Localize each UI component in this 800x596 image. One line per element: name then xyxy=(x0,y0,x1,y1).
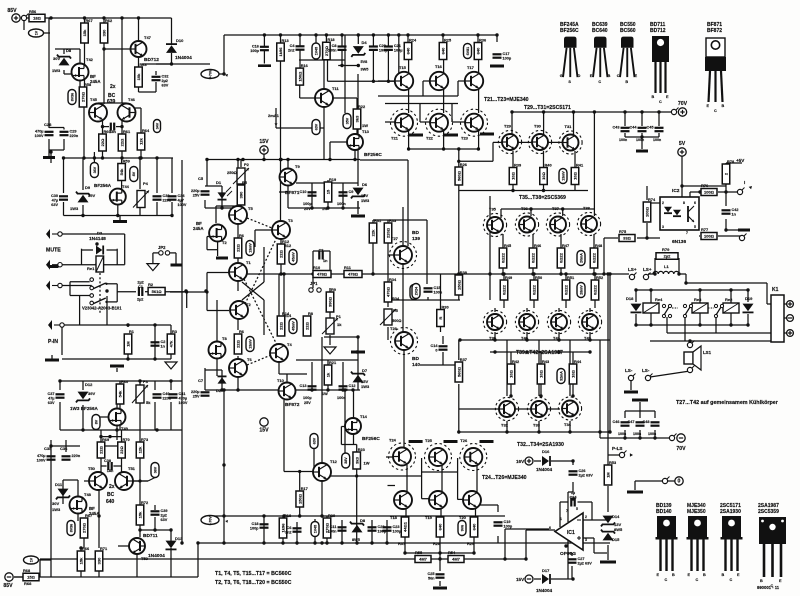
label +5V xyxy=(736,158,745,163)
wire c27 up xyxy=(571,553,573,556)
label T44 xyxy=(122,184,130,189)
wire r73 v xyxy=(139,430,141,442)
wire pls col xyxy=(607,274,609,455)
junction xyxy=(677,272,680,275)
wire T12 e xyxy=(321,481,323,516)
wire R19 col xyxy=(327,180,329,208)
svg-text:T1, T4, T5, T15...T17 = BC560C: T1, T4, T5, T15...T17 = BC560C xyxy=(215,571,292,577)
wire ls+ to L1 xyxy=(648,273,655,275)
wire T42 source xyxy=(79,80,81,89)
svg-text:1µ: 1µ xyxy=(571,491,575,495)
wire d3 top a xyxy=(82,249,94,251)
svg-text:LS-: LS- xyxy=(625,368,633,373)
wire t29 col drop xyxy=(511,112,513,135)
wire t29 base feed v xyxy=(458,149,460,167)
wire R77 lnk xyxy=(699,235,700,237)
label D8 xyxy=(66,48,72,53)
svg-text:R62: R62 xyxy=(105,18,113,23)
switch relay sw1 xyxy=(662,304,678,317)
svg-text:T5: T5 xyxy=(248,206,253,211)
junction xyxy=(222,388,225,391)
wire relay y341 xyxy=(650,340,771,342)
svg-text:C8: C8 xyxy=(332,44,337,48)
inductor L1 xyxy=(653,271,679,274)
label BF872 pkg xyxy=(707,28,722,34)
junction xyxy=(138,379,141,382)
junction xyxy=(120,125,123,128)
label 1W3b xyxy=(70,206,79,211)
capacitor C40 220n xyxy=(153,392,172,400)
wire T2 gate jog xyxy=(207,236,210,238)
resistor R25 xyxy=(439,37,452,59)
junction xyxy=(79,546,82,549)
svg-text:T42: T42 xyxy=(584,336,592,341)
wire K1 a lead xyxy=(784,303,787,305)
svg-text:8V36: 8V36 xyxy=(69,524,73,532)
wire t32 dn xyxy=(506,421,508,432)
svg-text:R1: R1 xyxy=(129,329,135,334)
svg-text:25V: 25V xyxy=(193,394,200,398)
wire top y60 xyxy=(299,59,345,61)
capacitor C21 100u xyxy=(384,44,403,52)
label 25V xyxy=(304,207,311,211)
capacitor C41 470u xyxy=(169,392,188,405)
label D18 xyxy=(626,296,634,301)
label BF245A2 xyxy=(90,79,101,84)
wire R16 dn xyxy=(299,85,301,98)
wire t14 gate l xyxy=(341,426,346,428)
svg-text:R40: R40 xyxy=(545,162,552,167)
transistor T17 xyxy=(465,72,483,90)
label 1W3 BF256A xyxy=(70,406,99,411)
wire T2 gate drop xyxy=(206,237,208,250)
wire gate xyxy=(64,73,72,75)
svg-text:5V8: 5V8 xyxy=(361,60,368,64)
wire r45col xyxy=(532,234,534,248)
terminal tap xyxy=(21,14,28,21)
wire c33 v2 xyxy=(156,202,158,216)
wire C46 dn xyxy=(624,430,626,438)
wire D1 led xyxy=(221,186,223,208)
wire T27 base w xyxy=(388,254,394,256)
svg-text:D10: D10 xyxy=(176,38,184,43)
junction xyxy=(457,160,460,163)
transistor T3 xyxy=(272,221,290,239)
svg-text:R76: R76 xyxy=(701,183,709,188)
svg-text:100n: 100n xyxy=(618,432,626,436)
wire R79 right xyxy=(678,258,680,274)
label D9 xyxy=(85,185,91,190)
oval -70V xyxy=(201,516,219,525)
svg-text:D13: D13 xyxy=(175,536,183,541)
wire sw2 drop xyxy=(684,317,686,341)
label D10 xyxy=(176,38,184,43)
svg-text:C16: C16 xyxy=(252,45,259,49)
svg-text:36V: 36V xyxy=(153,466,157,473)
wire T19 emit dn xyxy=(440,507,442,517)
wire y530 lnk xyxy=(155,529,171,531)
svg-text:100Ω: 100Ω xyxy=(645,206,650,217)
junction xyxy=(571,394,574,397)
svg-text:T12: T12 xyxy=(330,459,338,464)
wire C8 col xyxy=(341,35,343,46)
wire y553 join xyxy=(405,552,474,554)
wire base bus t35 xyxy=(501,208,594,210)
svg-text:R14: R14 xyxy=(284,313,292,318)
capacitor C15 100n xyxy=(424,286,443,294)
label JP1 xyxy=(310,281,318,286)
terminal 15V mid xyxy=(259,139,269,154)
junction xyxy=(623,110,626,113)
svg-text:R: R xyxy=(438,316,443,319)
svg-text:56n: 56n xyxy=(428,576,435,580)
label T2b xyxy=(246,302,251,307)
svg-text:85V: 85V xyxy=(3,583,13,589)
junction xyxy=(438,557,441,560)
label pin2 ic1 xyxy=(585,515,587,519)
ground T2 xyxy=(216,257,228,260)
terminal -85V xyxy=(3,573,13,589)
label T2 xyxy=(222,240,227,245)
capacitor C17 100p xyxy=(493,52,512,60)
label BF245A t2 xyxy=(196,221,202,226)
wire t19 base drop xyxy=(421,476,423,499)
label BF256C xyxy=(364,152,382,158)
label C28 xyxy=(44,122,52,127)
wire R71 col xyxy=(98,489,100,548)
svg-text:BC560: BC560 xyxy=(620,28,636,34)
label 100n c9 xyxy=(337,202,346,206)
wire P2 col xyxy=(240,160,242,167)
label bc560 note xyxy=(215,571,292,577)
transistor T19 xyxy=(429,491,447,509)
transistor T18 xyxy=(394,491,412,509)
terminal 70V tap xyxy=(671,108,678,115)
diode D9 zener xyxy=(76,192,90,203)
wire r73 long xyxy=(139,458,141,506)
svg-text:B: B xyxy=(703,573,706,577)
wire oval36v xyxy=(93,152,95,163)
svg-text:B: B xyxy=(672,573,675,577)
junction xyxy=(532,272,535,275)
svg-text:2µ2: 2µ2 xyxy=(137,298,143,302)
wire R43 up xyxy=(540,352,542,364)
wire C1-R2 xyxy=(145,291,148,293)
svg-text:22Ω: 22Ω xyxy=(236,243,241,251)
junction xyxy=(222,72,225,75)
svg-text:63V: 63V xyxy=(314,123,318,130)
heatsink circle T39 xyxy=(483,310,506,333)
wire D18 col xyxy=(635,290,637,302)
label T19 xyxy=(425,515,433,520)
resistor R29 270Ω xyxy=(323,513,336,538)
wire R21 col xyxy=(327,360,329,390)
junction xyxy=(511,189,514,192)
junction xyxy=(502,272,505,275)
junction xyxy=(236,388,239,391)
package TO-92 BF245 xyxy=(560,37,581,85)
svg-text:IC2: IC2 xyxy=(672,188,680,194)
terminal LS+ b xyxy=(643,273,650,280)
junction t12 emit xyxy=(326,474,329,477)
label T41 xyxy=(553,336,561,341)
svg-text:C35: C35 xyxy=(44,446,52,451)
diode D14 zener xyxy=(601,516,615,527)
svg-text:10Ω: 10Ω xyxy=(511,171,516,179)
svg-text:C32: C32 xyxy=(162,75,169,79)
wire R74 dn xyxy=(646,223,648,238)
svg-text:T44: T44 xyxy=(122,184,130,189)
junction xyxy=(698,288,701,291)
junction xyxy=(58,379,61,382)
resistor R33 220Ω xyxy=(384,218,397,243)
label C5 xyxy=(198,176,204,181)
label IC2 xyxy=(672,188,680,194)
wire LED row xyxy=(205,207,228,209)
relay Re4 xyxy=(643,303,659,313)
resistor R52 0Ω22 xyxy=(591,275,604,300)
wire r45col xyxy=(502,234,504,248)
wire y160 ext xyxy=(360,159,408,161)
wire T22 base jog xyxy=(420,121,430,123)
svg-text:5: 5 xyxy=(576,507,578,511)
heatsink circle T33 xyxy=(527,397,550,420)
resistor R61 22Ω xyxy=(118,129,131,151)
wire C21 dn xyxy=(387,51,389,82)
label 1W3 d7 xyxy=(361,384,370,389)
svg-text:R51: R51 xyxy=(567,275,575,280)
wire x264 dn xyxy=(263,300,265,335)
junction xyxy=(298,514,301,517)
label T46 xyxy=(128,97,136,102)
svg-text:140: 140 xyxy=(412,362,420,368)
label T13 xyxy=(362,129,370,134)
diode D12 zener 39V xyxy=(76,392,90,403)
resistor R79 2u2 xyxy=(656,253,678,260)
wire C16 col xyxy=(263,35,265,46)
label D13 xyxy=(175,536,183,541)
junction xyxy=(542,189,545,192)
wire P5 dn xyxy=(387,327,389,340)
junction xyxy=(501,272,504,275)
junction xyxy=(680,110,683,113)
wire C48 col xyxy=(654,411,656,418)
svg-text:R22: R22 xyxy=(358,104,366,109)
svg-text:12k: 12k xyxy=(139,137,144,144)
svg-text:BC: BC xyxy=(107,492,115,498)
wire r45 dn xyxy=(593,266,595,274)
junction xyxy=(298,33,301,36)
wire r49 dn xyxy=(533,299,535,308)
label docnum xyxy=(757,585,780,590)
label Re1 xyxy=(87,266,95,271)
wire C46 col xyxy=(624,411,626,418)
junction xyxy=(220,388,223,391)
svg-text:R16: R16 xyxy=(301,63,309,68)
relay Re2 xyxy=(723,303,739,313)
svg-text:R63: R63 xyxy=(140,62,148,67)
wire R6-T1 xyxy=(237,255,239,263)
label D8b xyxy=(360,518,366,523)
wire c46 top xyxy=(625,410,655,412)
svg-text:C28: C28 xyxy=(44,122,52,127)
wire c24-pin2 xyxy=(591,502,593,520)
svg-text:T14: T14 xyxy=(360,414,368,419)
heatsink circle T37 xyxy=(546,213,569,236)
resistor R18 1k96 xyxy=(279,513,292,538)
capacitor C2 1n xyxy=(151,340,166,348)
oval 2V24 xyxy=(410,285,418,300)
capacitor C22 190p xyxy=(368,525,387,533)
junction xyxy=(262,541,265,544)
wire pin3 to d15 xyxy=(594,552,607,554)
junction xyxy=(503,557,506,560)
svg-text:T24...T26=MJE340: T24...T26=MJE340 xyxy=(482,475,527,481)
ground t26 xyxy=(480,440,494,443)
svg-text:T29: T29 xyxy=(504,124,512,129)
svg-text:MJE350: MJE350 xyxy=(687,509,706,515)
svg-text:100n: 100n xyxy=(434,290,443,294)
svg-text:B: B xyxy=(625,80,628,84)
wire r49 dn xyxy=(594,299,596,308)
junction xyxy=(477,147,480,150)
svg-text:R8: R8 xyxy=(308,311,314,316)
label BD139 pkg xyxy=(656,503,672,509)
wire R34 col xyxy=(387,255,389,285)
svg-text:T20: T20 xyxy=(459,515,467,520)
wire T23 emit xyxy=(478,131,480,149)
junction xyxy=(606,272,609,275)
wire jp2 r xyxy=(170,252,176,254)
svg-text:Re4: Re4 xyxy=(655,297,663,302)
label BC560 pkg xyxy=(620,28,636,34)
oval 1V low xyxy=(24,556,39,564)
wire d9 v2 xyxy=(82,205,84,216)
svg-text:100µ: 100µ xyxy=(303,202,312,206)
label BF245Ab2 xyxy=(89,511,100,516)
junction xyxy=(325,541,328,544)
wire D10 col xyxy=(171,18,173,44)
resistor R72 15k xyxy=(136,500,149,525)
junction xyxy=(608,430,611,433)
wire y374 xyxy=(279,373,307,375)
junction xyxy=(137,16,140,19)
label 100u 25V xyxy=(303,202,312,206)
svg-text:D18: D18 xyxy=(626,296,634,301)
svg-text:D15: D15 xyxy=(612,537,620,542)
wire C8-D4 tie xyxy=(338,65,358,67)
wire t32 dn xyxy=(538,421,540,432)
junction xyxy=(155,428,158,431)
junction xyxy=(592,272,595,275)
heatsink circle T24 xyxy=(389,443,416,470)
oval 35V xyxy=(343,114,351,129)
wire D19 dn xyxy=(747,314,749,325)
junction xyxy=(623,436,626,439)
svg-text:8V: 8V xyxy=(94,419,98,424)
label BC xyxy=(108,93,116,99)
capacitor C45 100n xyxy=(647,126,664,132)
capacitor C7 220u xyxy=(191,390,210,398)
svg-text:T13: T13 xyxy=(362,129,370,134)
resistor R5 390Ω xyxy=(237,180,248,205)
svg-text:R68: R68 xyxy=(23,568,31,573)
svg-text:BD140: BD140 xyxy=(656,509,672,515)
svg-text:R41: R41 xyxy=(576,162,584,167)
svg-text:100Ω: 100Ω xyxy=(704,190,715,195)
svg-text:22k: 22k xyxy=(371,229,376,236)
svg-text:2x: 2x xyxy=(109,484,115,490)
label pin3 xyxy=(662,225,664,229)
diode D2 LED xyxy=(218,376,227,383)
svg-text:R58: R58 xyxy=(84,82,92,87)
wire lowcaps xyxy=(51,445,80,447)
svg-text:2µ2 63V: 2µ2 63V xyxy=(579,473,594,477)
wire fb up xyxy=(504,529,506,559)
wire R61 dn2 xyxy=(121,151,123,158)
svg-text:D: D xyxy=(578,74,581,78)
wire D8b col xyxy=(356,476,358,543)
wire y64 to right xyxy=(142,63,210,65)
junction xyxy=(403,551,406,554)
wire c27 dn xyxy=(571,566,573,579)
svg-text:2: 2 xyxy=(585,515,587,519)
terminal block K1 xyxy=(771,295,784,342)
svg-text:8W5: 8W5 xyxy=(614,527,623,532)
svg-text:P-LS: P-LS xyxy=(612,446,622,451)
wire T8 up xyxy=(216,300,218,341)
svg-text:R21: R21 xyxy=(329,360,337,365)
svg-text:C9: C9 xyxy=(349,190,354,194)
wire C40 col xyxy=(154,381,156,390)
svg-text:44Ω1: 44Ω1 xyxy=(403,521,408,532)
svg-text:4µ7: 4µ7 xyxy=(178,198,184,202)
wire drive rail A xyxy=(378,95,458,97)
terminal I out xyxy=(737,188,744,195)
svg-text:22Ω: 22Ω xyxy=(119,445,124,453)
svg-text:100n: 100n xyxy=(328,529,337,533)
wire rbank dn xyxy=(473,537,475,553)
resistor R16 150Ω xyxy=(296,63,309,85)
wire R63-C32 xyxy=(139,91,157,93)
wire rbank dn xyxy=(439,537,441,553)
svg-text:100Ω: 100Ω xyxy=(704,234,715,239)
label LS- a xyxy=(625,368,633,373)
transistor T46 xyxy=(118,104,136,122)
svg-text:BC640: BC640 xyxy=(592,28,608,34)
label P5 xyxy=(393,308,399,313)
transistor T11 xyxy=(315,89,333,107)
wire y64 D10 xyxy=(156,63,172,65)
svg-text:R18: R18 xyxy=(327,37,335,42)
svg-text:R26: R26 xyxy=(460,162,468,167)
junction xyxy=(657,110,660,113)
wire x224 low xyxy=(223,390,225,543)
svg-text:R25: R25 xyxy=(444,37,452,42)
wire c26 dn xyxy=(572,482,574,492)
wire x264 up xyxy=(263,247,265,282)
wire x345 low xyxy=(344,390,346,454)
wire R75 lnk xyxy=(637,237,660,239)
svg-text:25V: 25V xyxy=(193,193,200,197)
svg-text:T6: T6 xyxy=(247,357,252,362)
wire relay y325 xyxy=(636,324,748,326)
jfet T49 xyxy=(109,409,126,426)
junction xyxy=(724,228,727,231)
svg-text:1N4004: 1N4004 xyxy=(148,553,165,559)
wire 5v br xyxy=(682,185,726,187)
oval 28mV xyxy=(577,283,585,298)
